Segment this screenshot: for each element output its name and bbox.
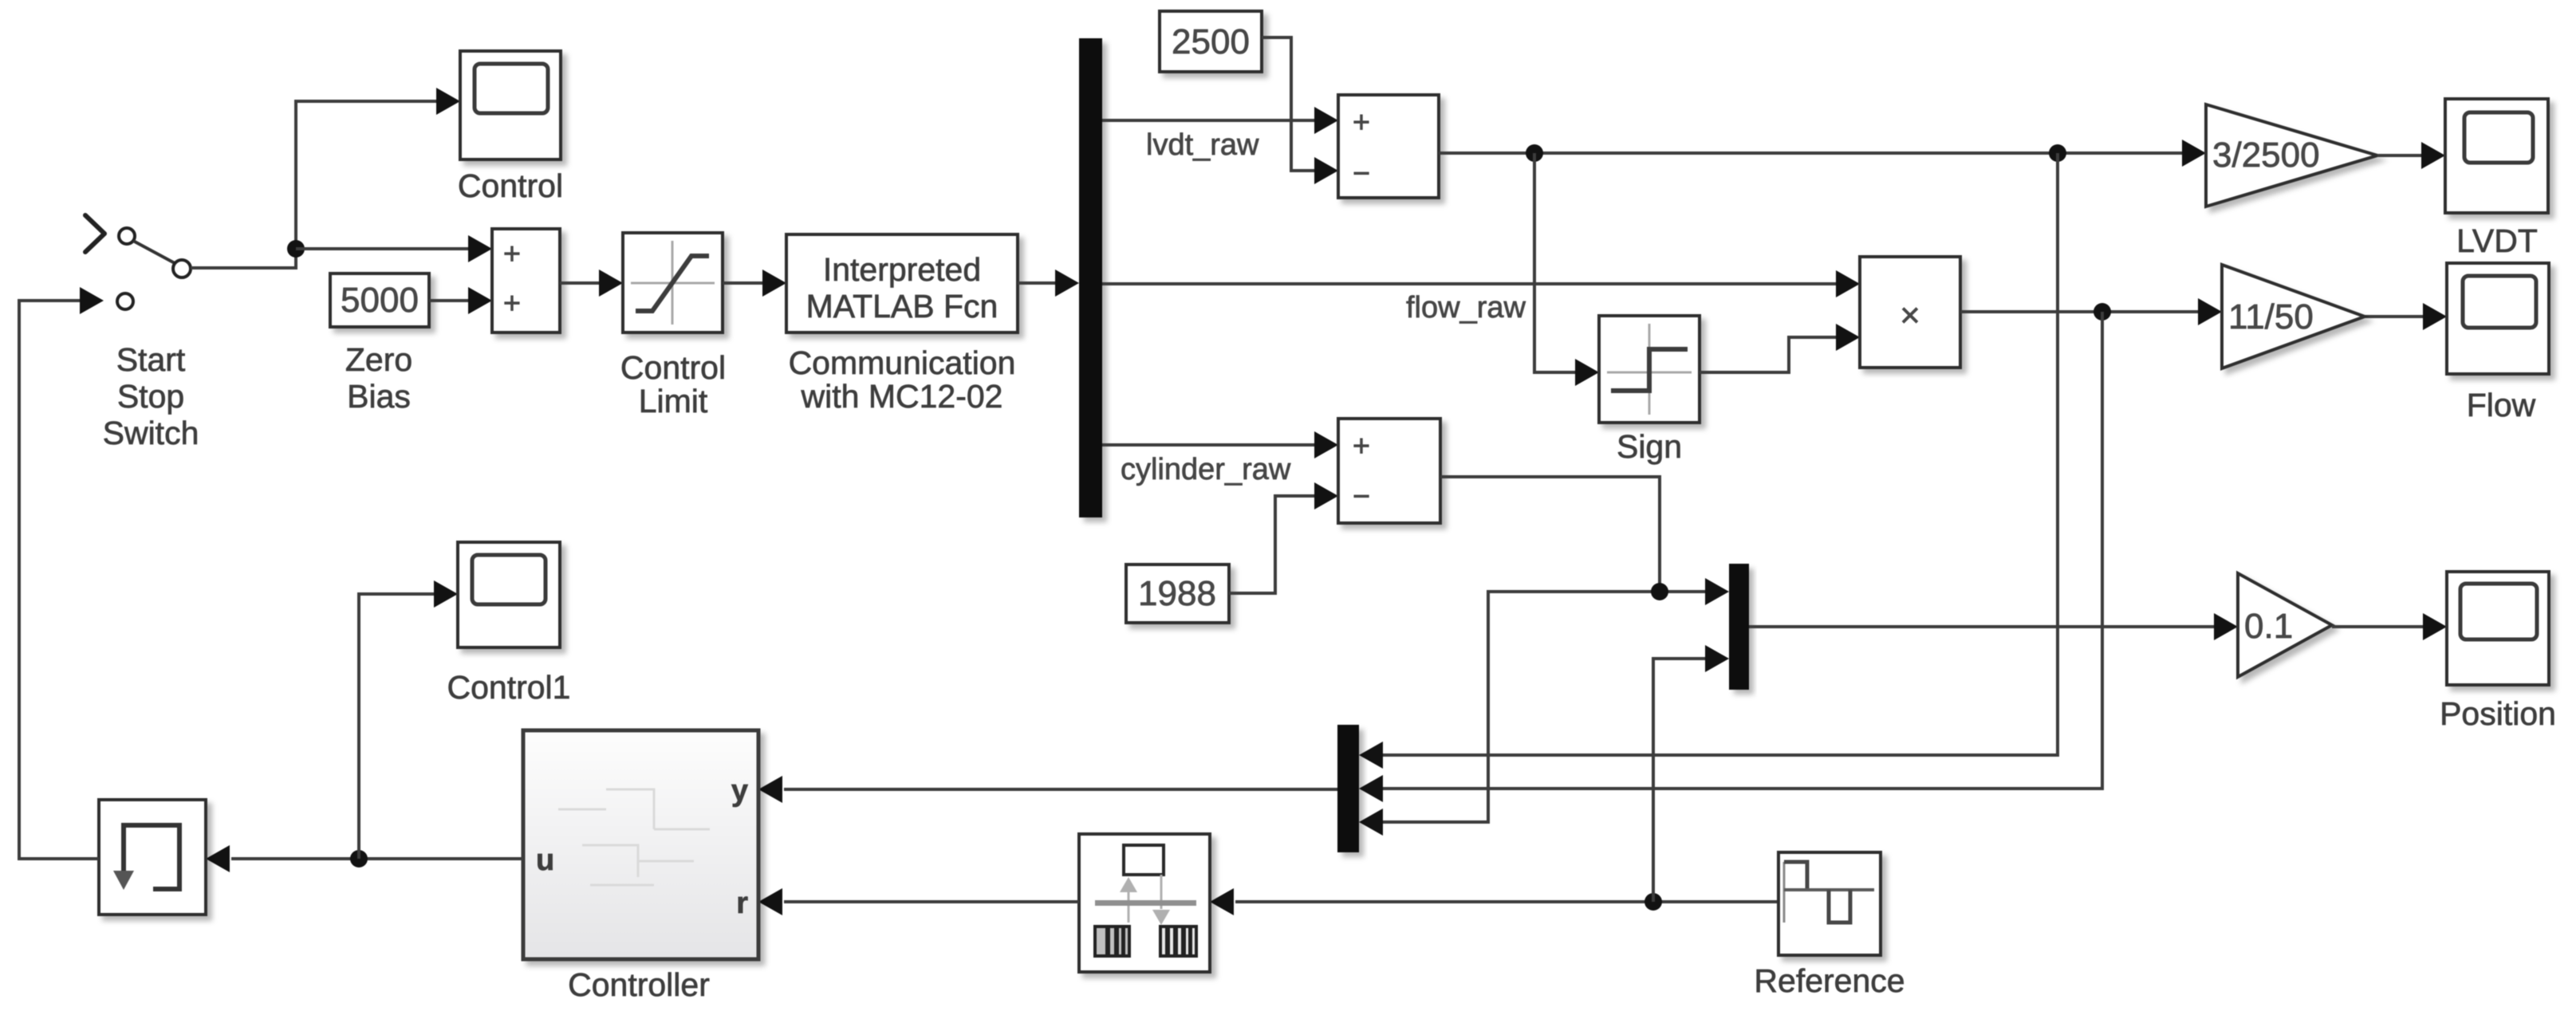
svg-text:Flow: Flow — [2467, 387, 2536, 423]
sum block cylinder — [1338, 419, 1440, 523]
svg-text:Reference: Reference — [1754, 962, 1904, 999]
wire Sign to product — [1700, 324, 1860, 372]
source Reference — [1754, 852, 1904, 999]
sign block Sign — [1599, 316, 1700, 465]
svg-text:0.1: 0.1 — [2244, 607, 2293, 646]
wire signal block to Controller r — [758, 888, 1079, 915]
svg-text:Start: Start — [116, 341, 186, 378]
svg-text:+: + — [503, 238, 521, 271]
gain 11/50 — [2222, 265, 2365, 368]
wire mux1 output to gain 0.1 — [1749, 613, 2238, 640]
wire 2500 to sum minus — [1262, 37, 1338, 184]
svg-text:3/2500: 3/2500 — [2212, 136, 2320, 175]
svg-text:×: × — [1900, 296, 1920, 335]
scope LVDT — [2445, 99, 2548, 259]
wire product output with junction — [1960, 298, 2222, 325]
svg-text:r: r — [736, 887, 748, 920]
svg-text:with MC12-02: with MC12-02 — [801, 378, 1003, 415]
svg-text:cylinder_raw: cylinder_raw — [1121, 453, 1291, 486]
svg-text:5000: 5000 — [341, 281, 419, 320]
svg-text:Control: Control — [458, 167, 563, 204]
saturation Control Limit — [620, 233, 726, 419]
constant 1988 — [1126, 565, 1229, 623]
wire mux2 output to Controller y — [758, 776, 1337, 803]
signal editor block — [1079, 834, 1210, 972]
wire junction up to mux1 input2 — [1653, 645, 1729, 902]
wire saturation to MATLAB Fcn — [723, 269, 786, 297]
svg-text:u: u — [536, 844, 554, 877]
mux2 — [1337, 725, 1359, 852]
manual switch Start Stop Switch — [85, 215, 199, 451]
sum block lvdt — [1338, 95, 1439, 198]
svg-text:Stop: Stop — [117, 378, 184, 415]
wire gain 0.1 to Position scope — [2332, 613, 2447, 640]
wire gain to LVDT scope — [2377, 142, 2445, 169]
wire cylinder sum output to mux1 and down — [1359, 477, 1729, 836]
svg-text:Sign: Sign — [1617, 428, 1682, 465]
scope Position — [2440, 572, 2556, 732]
svg-text:flow_raw: flow_raw — [1406, 291, 1526, 325]
svg-text:Bias: Bias — [347, 378, 411, 415]
svg-text:LVDT: LVDT — [2456, 222, 2538, 259]
svg-text:−: − — [1353, 480, 1370, 513]
wire flow_raw from demux to product — [1102, 270, 1860, 325]
svg-text:+: + — [503, 287, 521, 321]
svg-text:Zero: Zero — [345, 341, 412, 378]
svg-text:11/50: 11/50 — [2228, 297, 2314, 336]
wire MATLAB Fcn to demux — [1018, 269, 1079, 297]
svg-text:Control: Control — [620, 349, 726, 386]
svg-text:Limit: Limit — [639, 383, 708, 419]
wire 1988 to sum minus — [1229, 482, 1338, 593]
svg-text:lvdt_raw: lvdt_raw — [1146, 128, 1259, 162]
svg-text:Controller: Controller — [568, 966, 710, 1003]
product block — [1860, 257, 1960, 368]
wire Reference to signal block with junction — [1210, 888, 1778, 915]
wire lvdt_raw from demux — [1102, 107, 1338, 162]
svg-text:Switch: Switch — [103, 415, 199, 451]
rate transition block — [99, 800, 206, 915]
subsystem Controller — [523, 730, 758, 1003]
svg-text:+: + — [1353, 430, 1370, 463]
svg-text:MATLAB Fcn: MATLAB Fcn — [806, 288, 998, 325]
wire cylinder_raw from demux — [1102, 431, 1338, 486]
svg-text:Communication: Communication — [789, 344, 1016, 381]
svg-text:+: + — [1353, 106, 1370, 140]
constant Zero Bias 5000 — [330, 273, 429, 415]
wire flow junction down to mux2 input2 — [1359, 312, 2102, 802]
scope Control — [458, 51, 563, 204]
wire feedback to switch — [19, 287, 104, 859]
wire lvdt sum output to gain with junctions — [1439, 140, 2206, 167]
mux1 — [1729, 564, 1749, 690]
gain 3/2500 — [2206, 104, 2377, 207]
wire down to Sign — [1534, 153, 1599, 386]
wire Controller u output with junction — [206, 580, 523, 872]
svg-text:−: − — [1353, 157, 1370, 191]
sum block Sum1 — [492, 229, 560, 332]
gain 0.1 — [2238, 573, 2332, 677]
constant 2500 — [1160, 11, 1262, 72]
wire switch output to junction and sum — [191, 88, 492, 268]
svg-text:1988: 1988 — [1138, 574, 1216, 613]
svg-text:2500: 2500 — [1172, 22, 1250, 61]
svg-text:Interpreted: Interpreted — [823, 251, 981, 288]
wire lvdt junction down to mux2 input1 — [1359, 153, 2058, 769]
wire 5000 to sum — [429, 287, 492, 314]
scope Control1 — [447, 542, 571, 706]
demux — [1079, 38, 1102, 517]
block Communication with MC12-02 Interpreted MATLAB Fcn — [786, 234, 1018, 415]
wire product to gain 11/50 — [2365, 303, 2447, 330]
svg-text:Position: Position — [2440, 695, 2556, 732]
scope Flow — [2447, 263, 2549, 423]
wire sum to saturation — [560, 269, 623, 297]
svg-text:Control1: Control1 — [447, 669, 571, 706]
svg-text:y: y — [731, 774, 748, 808]
